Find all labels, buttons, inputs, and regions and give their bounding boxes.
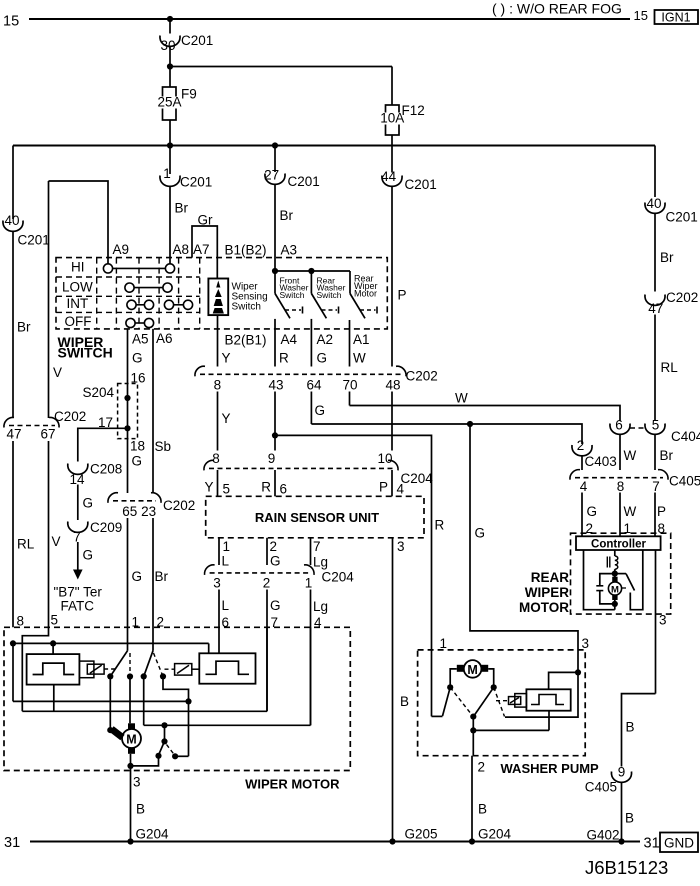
svg-text:67: 67	[40, 427, 55, 442]
svg-text:C405: C405	[669, 474, 700, 489]
svg-text:A1: A1	[353, 332, 370, 347]
svg-text:A7: A7	[193, 242, 210, 257]
svg-text:C201: C201	[18, 233, 50, 248]
svg-text:Gr: Gr	[198, 213, 214, 228]
svg-text:R: R	[279, 351, 289, 366]
svg-text:C201: C201	[181, 33, 213, 48]
svg-text:2: 2	[577, 438, 585, 453]
svg-text:GND: GND	[664, 836, 694, 851]
svg-text:F9: F9	[181, 87, 197, 102]
svg-text:L: L	[222, 598, 230, 613]
svg-text:W: W	[455, 391, 468, 406]
svg-text:"B7" Ter: "B7" Ter	[54, 585, 103, 600]
svg-text:G402: G402	[587, 828, 620, 843]
svg-text:Switch: Switch	[317, 290, 342, 300]
svg-text:HI: HI	[71, 260, 85, 275]
svg-text:B: B	[478, 802, 487, 817]
svg-text:C201: C201	[288, 174, 320, 189]
svg-text:15: 15	[634, 8, 648, 23]
svg-text:( ) : W/O REAR FOG: ( ) : W/O REAR FOG	[492, 1, 622, 17]
svg-text:2: 2	[263, 576, 271, 591]
svg-text:OFF: OFF	[65, 314, 92, 329]
svg-text:5: 5	[223, 482, 231, 497]
svg-text:G: G	[317, 351, 328, 366]
svg-text:30: 30	[160, 38, 175, 53]
svg-text:Motor: Motor	[354, 289, 377, 299]
svg-text:1: 1	[440, 636, 448, 651]
svg-text:G204: G204	[136, 827, 170, 842]
svg-text:A2: A2	[317, 332, 334, 347]
svg-text:9: 9	[618, 765, 626, 780]
svg-text:V: V	[52, 534, 61, 549]
svg-text:G: G	[83, 496, 94, 511]
svg-text:R: R	[261, 480, 271, 495]
svg-text:8: 8	[212, 451, 220, 466]
svg-text:2: 2	[270, 539, 278, 554]
svg-text:4: 4	[580, 479, 588, 494]
svg-text:Y: Y	[222, 351, 231, 366]
svg-text:Y: Y	[222, 411, 231, 426]
svg-text:P: P	[379, 480, 388, 495]
svg-text:1: 1	[163, 166, 171, 181]
svg-text:64: 64	[306, 378, 322, 393]
svg-text:B: B	[400, 694, 409, 709]
svg-text:R: R	[435, 518, 445, 533]
svg-text:3: 3	[213, 576, 221, 591]
svg-text:Controller: Controller	[591, 539, 646, 551]
svg-text:C202: C202	[406, 369, 438, 384]
svg-text:8: 8	[17, 614, 25, 629]
svg-text:INT: INT	[67, 296, 89, 311]
svg-text:B: B	[625, 811, 634, 826]
svg-text:G204: G204	[478, 827, 512, 842]
svg-text:40: 40	[646, 196, 661, 211]
svg-text:C201: C201	[180, 175, 212, 190]
svg-text:B: B	[626, 720, 635, 735]
svg-text:47: 47	[6, 427, 21, 442]
svg-text:G: G	[270, 554, 281, 569]
svg-text:C405: C405	[585, 780, 617, 795]
svg-text:5: 5	[51, 613, 59, 628]
svg-text:S204: S204	[82, 385, 114, 400]
svg-text:V: V	[53, 365, 62, 380]
svg-text:G: G	[270, 598, 281, 613]
svg-text:C404: C404	[671, 429, 700, 444]
svg-text:G: G	[132, 351, 143, 366]
svg-text:23: 23	[141, 504, 156, 519]
svg-text:7: 7	[313, 539, 321, 554]
svg-text:G: G	[132, 454, 143, 469]
svg-text:RL: RL	[17, 537, 35, 552]
svg-text:9: 9	[268, 451, 276, 466]
svg-text:WIPER: WIPER	[525, 585, 570, 600]
svg-text:Br: Br	[280, 208, 294, 223]
svg-text:WASHER PUMP: WASHER PUMP	[501, 761, 600, 776]
svg-text:6: 6	[280, 482, 288, 497]
svg-text:WIPER MOTOR: WIPER MOTOR	[245, 777, 340, 792]
svg-text:6: 6	[615, 418, 623, 433]
svg-text:Switch: Switch	[280, 290, 305, 300]
svg-text:J6B15123: J6B15123	[585, 857, 668, 878]
svg-text:44: 44	[381, 169, 397, 184]
svg-text:A8: A8	[173, 242, 190, 257]
svg-text:3: 3	[133, 775, 141, 790]
svg-text:M: M	[467, 663, 477, 677]
svg-text:Sb: Sb	[155, 439, 172, 454]
svg-text:IGN1: IGN1	[661, 11, 690, 25]
svg-text:W: W	[624, 448, 637, 463]
svg-text:G: G	[315, 403, 326, 418]
svg-text:G: G	[132, 569, 143, 584]
svg-text:70: 70	[342, 378, 357, 393]
svg-text:31: 31	[4, 835, 20, 851]
svg-text:4: 4	[397, 482, 405, 497]
svg-text:MOTOR: MOTOR	[519, 600, 569, 615]
svg-text:G205: G205	[405, 827, 438, 842]
svg-text:10: 10	[377, 451, 392, 466]
svg-text:27: 27	[264, 168, 279, 183]
svg-text:C202: C202	[163, 498, 195, 513]
svg-text:2: 2	[478, 760, 486, 775]
svg-text:C208: C208	[90, 462, 122, 477]
svg-text:G: G	[475, 526, 486, 541]
svg-text:REAR: REAR	[531, 570, 570, 585]
svg-text:A3: A3	[281, 243, 298, 258]
svg-text:C201: C201	[666, 210, 698, 225]
svg-text:3: 3	[397, 539, 405, 554]
svg-text:C403: C403	[585, 454, 617, 469]
svg-text:M: M	[126, 733, 136, 747]
svg-text:F12: F12	[402, 103, 425, 118]
svg-text:A4: A4	[281, 332, 298, 347]
svg-text:FATC: FATC	[61, 599, 95, 614]
svg-text:C202: C202	[666, 290, 698, 305]
svg-text:Y: Y	[204, 480, 213, 495]
svg-text:C209: C209	[90, 520, 122, 535]
svg-text:G: G	[83, 548, 94, 563]
svg-text:18: 18	[130, 439, 145, 454]
svg-text:65: 65	[122, 504, 137, 519]
svg-text:SWITCH: SWITCH	[58, 345, 113, 361]
svg-text:Switch: Switch	[232, 302, 261, 313]
svg-text:1: 1	[305, 576, 313, 591]
svg-text:C204: C204	[401, 471, 434, 486]
svg-text:47: 47	[648, 301, 663, 316]
svg-text:Lg: Lg	[313, 599, 328, 614]
svg-text:B2(B1): B2(B1)	[225, 333, 267, 348]
svg-text:Br: Br	[175, 201, 189, 216]
svg-text:RAIN SENSOR UNIT: RAIN SENSOR UNIT	[255, 510, 379, 525]
svg-text:Lg: Lg	[313, 555, 328, 570]
svg-text:C202: C202	[54, 409, 86, 424]
svg-text:7: 7	[652, 479, 660, 494]
svg-text:P: P	[398, 288, 407, 303]
svg-text:3: 3	[659, 613, 667, 628]
svg-text:3: 3	[582, 636, 590, 651]
svg-text:A5: A5	[132, 332, 149, 347]
svg-text:RL: RL	[661, 360, 679, 375]
svg-text:C201: C201	[405, 177, 437, 192]
svg-text:8: 8	[214, 378, 222, 393]
svg-text:M: M	[611, 585, 619, 596]
svg-text:P: P	[657, 504, 666, 519]
svg-text:48: 48	[385, 378, 400, 393]
svg-text:Br: Br	[155, 569, 169, 584]
svg-text:B1(B2): B1(B2)	[225, 243, 267, 258]
svg-text:43: 43	[268, 378, 283, 393]
svg-text:Br: Br	[660, 448, 674, 463]
svg-text:W: W	[353, 351, 366, 366]
svg-text:Br: Br	[17, 320, 31, 335]
svg-text:A9: A9	[113, 242, 130, 257]
svg-text:A6: A6	[156, 331, 173, 346]
svg-text:40: 40	[4, 213, 19, 228]
svg-text:L: L	[222, 554, 230, 569]
svg-text:LOW: LOW	[62, 280, 93, 295]
svg-text:B: B	[136, 802, 145, 817]
svg-text:C204: C204	[322, 570, 355, 585]
svg-text:25A: 25A	[157, 95, 181, 110]
svg-text:Br: Br	[660, 250, 674, 265]
svg-text:W: W	[624, 504, 637, 519]
svg-text:15: 15	[3, 14, 19, 30]
svg-text:31: 31	[644, 836, 660, 852]
svg-text:5: 5	[652, 418, 660, 433]
svg-text:G: G	[587, 504, 598, 519]
svg-text:1: 1	[223, 539, 231, 554]
svg-text:8: 8	[617, 479, 625, 494]
